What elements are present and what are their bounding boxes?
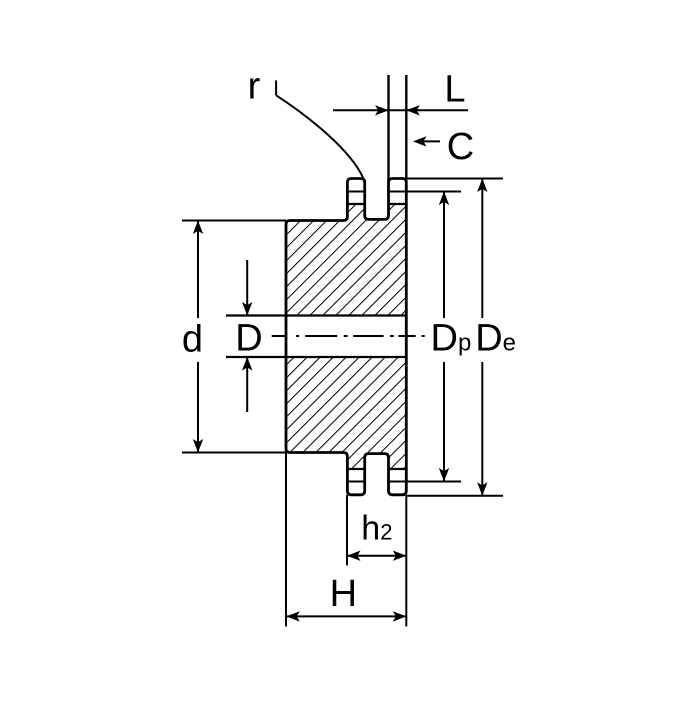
dimension Dp bbox=[443, 192, 445, 319]
L extension line right (tooth plate right face) bbox=[405, 75, 407, 182]
dimension L bbox=[333, 109, 468, 111]
svg-text:H: H bbox=[330, 573, 357, 615]
leader r bbox=[275, 80, 277, 95]
dimension d bbox=[197, 221, 199, 319]
dimension D bbox=[246, 260, 248, 316]
L extension line left (tooth plate left face) bbox=[387, 75, 389, 182]
dimension H bbox=[286, 615, 406, 617]
hatched cross-section lower half bbox=[286, 357, 406, 469]
tooth root line top, right tooth bbox=[389, 203, 407, 205]
hatched cross-section upper half bbox=[286, 204, 406, 316]
center line (dash-dot axis) bbox=[272, 335, 425, 337]
pitch line top, left tooth bbox=[347, 191, 364, 193]
svg-text:d: d bbox=[182, 319, 203, 361]
pitch line bottom, right tooth + Dp extension bbox=[389, 481, 462, 483]
svg-text:r: r bbox=[248, 66, 261, 108]
tooth root line top, left tooth bbox=[347, 203, 364, 205]
dimension h2 bbox=[347, 555, 406, 557]
arrow C bbox=[418, 140, 440, 142]
d extension line top left bbox=[182, 220, 286, 222]
sprocket body outline bbox=[286, 179, 406, 495]
svg-text:C: C bbox=[447, 126, 474, 168]
dimension De bbox=[481, 179, 483, 319]
H extension line left bbox=[285, 453, 287, 627]
svg-text:L: L bbox=[444, 69, 465, 111]
pitch line bottom, left tooth bbox=[347, 481, 364, 483]
h2 extension line left bbox=[346, 495, 348, 566]
pitch line top, right tooth + Dp extension bbox=[389, 191, 462, 193]
svg-text:D: D bbox=[235, 317, 262, 359]
bore top line + D extension left bbox=[226, 314, 406, 316]
tooth root line bottom, left tooth bbox=[347, 468, 364, 470]
De extension line bottom right bbox=[406, 495, 503, 497]
H / h2 extension line right bbox=[405, 495, 407, 627]
tooth root line bottom, right tooth bbox=[389, 468, 407, 470]
d extension line bottom left bbox=[182, 452, 286, 454]
De extension line top right bbox=[406, 178, 503, 180]
bore bottom line + D extension left bbox=[226, 356, 406, 358]
